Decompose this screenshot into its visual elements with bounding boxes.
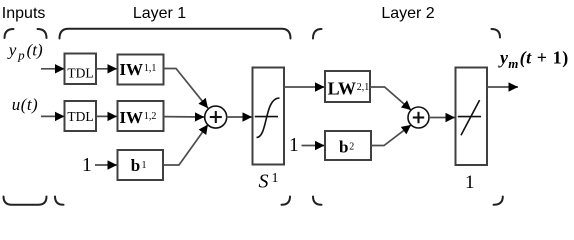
wire TDL2 to IW12 [97,115,118,117]
wire LW to sum2 [370,87,411,110]
svg-text:yp(t): yp(t) [7,41,43,63]
svg-text:S: S [259,170,269,192]
wire 1 to b1 [95,164,117,166]
wire TDL1 to IW11 [97,68,118,70]
wire b2 to sum2 [371,125,411,146]
svg-text:TDL: TDL [67,109,93,124]
wire y_p input arrow [41,68,65,70]
wire output arrow [487,86,518,88]
weight block IW 1,1 [118,55,164,85]
svg-text:Layer 1: Layer 1 [133,5,186,22]
svg-text:1: 1 [82,155,92,176]
svg-text:ym(t + 1): ym(t + 1) [498,47,569,71]
weight block LW 2,1 [325,71,370,102]
wire sum2 to purelin [429,117,455,119]
bracket layer1 bottom-left hook [55,197,64,205]
sum junction 2 [408,107,429,128]
wire b1 to sum1 [164,125,208,165]
bracket layer2 bottom-left hook [313,197,322,205]
bracket layer1 bottom-right hook [282,197,291,205]
bracket layer2 top-left hook [313,29,322,39]
wire IW11 to sum1 [164,69,209,109]
weight block IW 1,2 [118,101,164,131]
transfer block purelin [456,68,488,166]
svg-text:u(t): u(t) [12,95,38,114]
transfer block logsig [253,68,285,165]
svg-text:Layer 2: Layer 2 [381,5,434,22]
svg-text:Inputs: Inputs [2,5,46,22]
TDL block 2 [65,101,97,131]
bracket layer1 top [60,29,291,39]
wire sum1 to sigmoid [227,116,253,118]
wire sigmoid to LW [284,86,325,88]
wire 1 to b2 [302,145,325,147]
bias block b2 [325,131,371,160]
svg-text:1: 1 [272,171,279,186]
svg-text:1: 1 [465,172,475,193]
wire u input arrow [41,115,65,117]
wire IW12 to sum1 [164,116,205,118]
bracket layer2 bottom-right hook [494,197,503,205]
bracket inputs bottom [4,197,47,205]
svg-text:TDL: TDL [67,65,93,80]
bias block b1 [118,150,164,180]
bracket inputs top-left hook [5,29,14,38]
TDL block 1 [65,54,97,85]
svg-text:1: 1 [289,135,299,156]
bracket layer2 top-right hook [492,29,501,38]
sum junction 1 [205,106,227,128]
bracket inputs top-right hook [38,29,47,38]
